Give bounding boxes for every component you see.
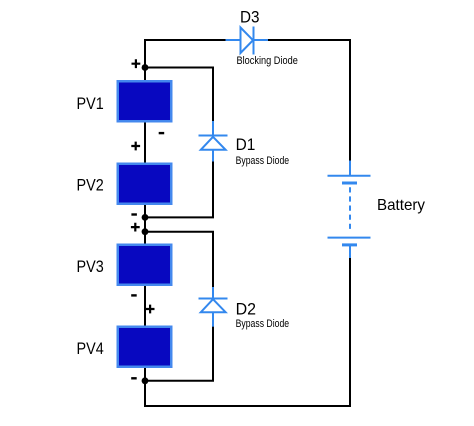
wire D2 anode lead to node D	[145, 326, 213, 381]
svg-text:D3: D3	[240, 8, 260, 27]
polarity + at PV2 top	[131, 142, 140, 151]
svg-text:PV3: PV3	[77, 257, 104, 276]
wire PV3 negative to PV4 positive	[144, 285, 146, 326]
polarity - at PV4 bottom	[131, 377, 137, 379]
wire top-left from node A up and right to D3 anode	[145, 40, 226, 68]
svg-text:PV2: PV2	[77, 175, 104, 194]
solar panel PV3	[118, 245, 172, 285]
battery B1	[328, 161, 371, 259]
solar panel PV4	[118, 327, 172, 367]
polarity + at PV3 top	[131, 223, 140, 232]
wire node C to D2 cathode lead	[145, 232, 213, 288]
svg-text:Blocking Diode: Blocking Diode	[237, 55, 298, 67]
svg-text:Battery: Battery	[377, 197, 425, 214]
polarity + at PV4 top	[146, 305, 155, 314]
wire PV1 negative to PV2 positive	[144, 122, 146, 163]
solar panel PV2	[118, 164, 172, 204]
diode D1 bypass diode symbol	[199, 121, 228, 162]
solar panel PV1	[118, 81, 172, 121]
wire top-right from D3 cathode to battery positive lead	[268, 40, 350, 162]
wire PV4 negative via node D down and right to battery negative lead	[145, 257, 350, 406]
diode D2 bypass diode symbol	[199, 287, 228, 327]
wire node A to D1 cathode lead	[145, 68, 213, 123]
polarity + at PV1 top	[132, 59, 141, 68]
svg-text:PV1: PV1	[77, 94, 104, 113]
node D junction dot	[142, 377, 149, 384]
svg-text:Bypass Diode: Bypass Diode	[236, 155, 290, 167]
svg-text:D2: D2	[236, 299, 256, 318]
svg-text:PV4: PV4	[77, 339, 104, 358]
wire node A to PV1 positive terminal	[144, 66, 146, 81]
wire PV2 negative through nodes B and C to PV3 positive	[144, 204, 146, 244]
node B junction dot	[142, 214, 149, 221]
svg-text:D1: D1	[236, 135, 256, 154]
node C junction dot	[142, 228, 149, 235]
polarity - at PV2 bottom	[131, 213, 137, 215]
polarity - at PV1 bottom	[159, 132, 165, 134]
polarity - at PV3 bottom	[131, 294, 137, 296]
diode D3 blocking diode symbol	[226, 27, 269, 55]
wire D1 anode lead to node B	[145, 161, 213, 218]
svg-text:Bypass Diode: Bypass Diode	[236, 318, 290, 330]
node A junction dot	[142, 64, 149, 71]
